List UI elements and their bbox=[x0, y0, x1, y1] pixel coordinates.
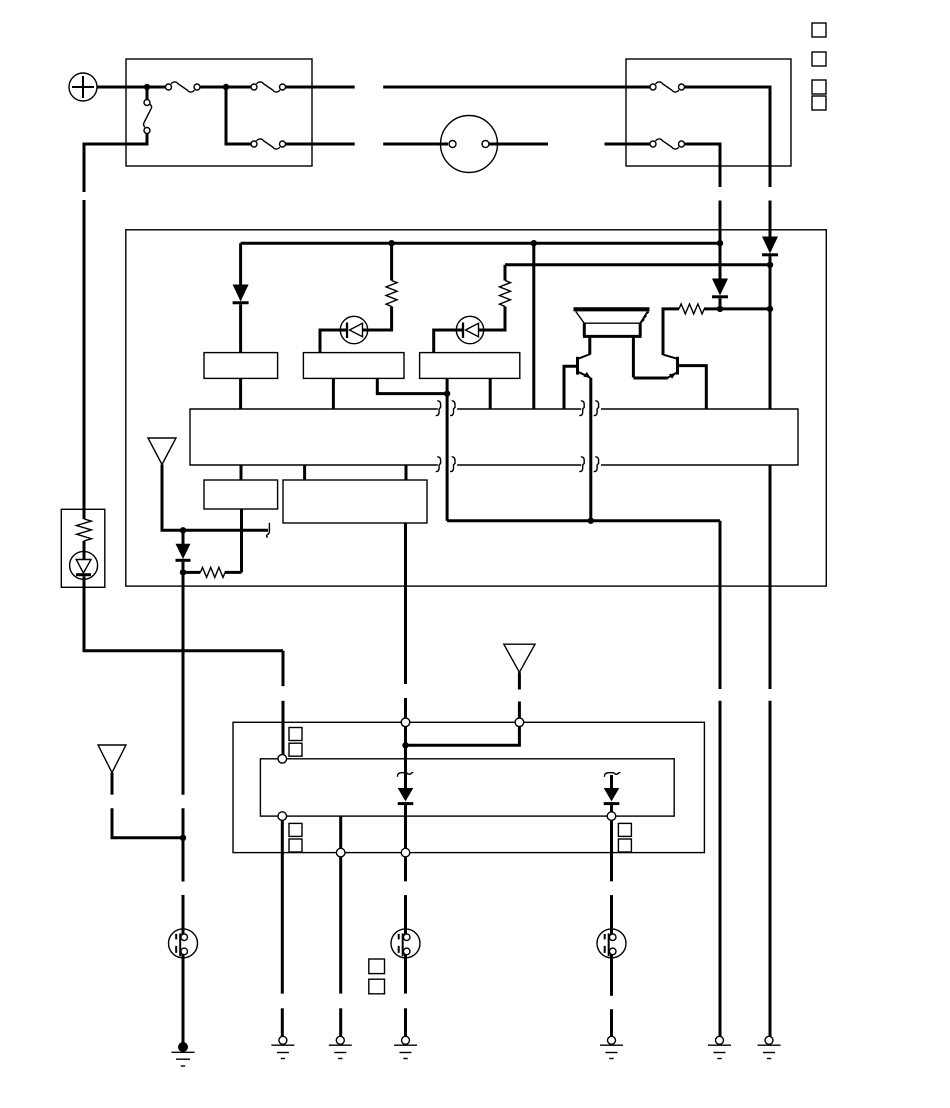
node antenna junction bbox=[180, 527, 186, 533]
wire feed inside receiver bbox=[404, 727, 407, 746]
connector square 3 bbox=[812, 80, 826, 94]
diode D5 bbox=[397, 745, 413, 848]
node D3 out bbox=[717, 306, 723, 312]
transistor Q2 bbox=[633, 355, 706, 409]
terminal antenna bbox=[515, 718, 524, 727]
connector square r6 bbox=[618, 839, 631, 852]
wire fuse D to ignition switch bbox=[286, 143, 449, 146]
wire right long 1 bbox=[719, 521, 722, 689]
pin box B to IC bbox=[332, 378, 335, 409]
LED L1 bbox=[320, 316, 368, 352]
ignition switch bbox=[441, 116, 498, 173]
wire through IC node path bbox=[447, 519, 720, 522]
terminal out 2 bbox=[401, 848, 410, 857]
node antenna 2 junction bbox=[180, 835, 186, 841]
pin box C to IC bbox=[489, 378, 492, 409]
connector A bbox=[169, 929, 198, 958]
ground G4 bbox=[394, 1036, 417, 1058]
wire out1 down bbox=[339, 816, 342, 848]
wire fuse A to fuse B bbox=[200, 86, 251, 89]
resistor R2 bbox=[479, 265, 511, 330]
box B bbox=[303, 353, 404, 379]
speaker bbox=[574, 309, 650, 377]
wire fuse C down right bbox=[685, 87, 771, 187]
wire end curl bbox=[267, 523, 270, 538]
box C bbox=[420, 353, 520, 379]
pin IC to box D bbox=[240, 465, 243, 480]
node bus right bbox=[717, 240, 723, 246]
color square b1 bbox=[369, 959, 385, 974]
antenna triangle 3 bbox=[504, 644, 535, 718]
box D bbox=[204, 480, 278, 509]
wire connector A to ground bbox=[182, 958, 185, 1044]
fuse B bbox=[251, 82, 286, 92]
battery bbox=[69, 73, 97, 101]
pin IC right down bbox=[769, 465, 772, 689]
wire jog down bbox=[282, 651, 285, 686]
terminal out 1 bbox=[336, 848, 345, 857]
fusible link vertical bbox=[84, 90, 152, 192]
pin IC to box E right bbox=[405, 465, 408, 480]
wire fuse B to fuse box 2 bbox=[286, 86, 651, 89]
resistor R4 bbox=[183, 567, 242, 577]
wire receiver left down bbox=[281, 820, 284, 993]
ground G1 bbox=[172, 1042, 195, 1066]
node D4 out bbox=[180, 569, 186, 575]
diode D6 bbox=[604, 773, 620, 812]
terminal receiver left bottom bbox=[278, 812, 287, 821]
wire box D down bbox=[240, 509, 243, 572]
wire fuse E down bbox=[685, 144, 721, 187]
security LED unit bbox=[61, 509, 283, 650]
connector square r2 bbox=[289, 743, 302, 756]
fuse D bbox=[251, 139, 286, 149]
fuse E bbox=[650, 139, 685, 149]
wire bus to IC bbox=[532, 243, 535, 409]
receiver unit box bbox=[233, 722, 704, 852]
wire box B to node bbox=[377, 378, 447, 393]
control unit box bbox=[126, 230, 827, 586]
node emitter junction bbox=[588, 518, 594, 524]
box E bbox=[283, 480, 427, 523]
connector square 2 bbox=[812, 52, 826, 66]
pin IC to box E left bbox=[303, 465, 306, 480]
connector square r5 bbox=[618, 823, 631, 836]
wire right long 2 bbox=[769, 701, 772, 1037]
pin box A to IC bbox=[239, 378, 242, 409]
bus wire second bbox=[505, 263, 770, 266]
ground G3 bbox=[329, 1036, 352, 1058]
bus wire top bbox=[241, 242, 720, 245]
transistor Q1 bbox=[564, 354, 591, 409]
ground G7 bbox=[758, 1036, 781, 1058]
wire main down left bbox=[182, 572, 185, 794]
wire to fuse E bbox=[605, 143, 651, 146]
receiver inner unit bbox=[260, 759, 674, 816]
ground G6 bbox=[708, 1036, 731, 1058]
diode D4 bbox=[176, 530, 191, 572]
node bus R1 bbox=[388, 240, 394, 246]
wire D6 down bbox=[610, 820, 613, 881]
fuse box 2 bbox=[626, 59, 791, 166]
node battery feed bbox=[144, 84, 150, 90]
connector square r4 bbox=[289, 839, 302, 852]
ground G5 bbox=[600, 1036, 623, 1058]
diode D3 bbox=[712, 243, 728, 309]
fuse A bbox=[166, 82, 201, 92]
terminal receiver feed bbox=[401, 718, 410, 727]
wire out2 down bbox=[404, 857, 407, 881]
wire ignition switch right bbox=[489, 143, 548, 146]
fuse C bbox=[650, 82, 685, 92]
node receiver feed bbox=[402, 742, 408, 748]
wire box E down bbox=[404, 523, 407, 684]
connector square 1 bbox=[812, 23, 826, 37]
wire battery branch lower bbox=[83, 200, 86, 519]
resistor R1 bbox=[363, 243, 398, 330]
wire ignition branch bbox=[226, 87, 251, 144]
connector square r3 bbox=[289, 823, 302, 836]
wire battery to fuse box bbox=[97, 86, 166, 89]
antenna triangle 2 bbox=[98, 745, 183, 838]
node bus2 right bbox=[767, 262, 773, 268]
connector square r1 bbox=[289, 728, 302, 741]
resistor R3 bbox=[663, 304, 770, 355]
wire Q1 emitter through IC bbox=[589, 378, 592, 521]
IC break marks bbox=[436, 401, 599, 472]
diode D2 bbox=[233, 243, 249, 352]
LED L2 bbox=[434, 316, 484, 352]
connector C bbox=[597, 929, 626, 958]
node bus mid bbox=[531, 240, 537, 246]
ground G2 bbox=[271, 1036, 294, 1058]
box A bbox=[204, 353, 278, 379]
IC block bbox=[190, 409, 798, 465]
diode D1 bbox=[762, 237, 778, 410]
fuse box 1 bbox=[126, 59, 312, 166]
wire box C through IC bbox=[446, 378, 449, 520]
node R3 right bbox=[767, 306, 773, 312]
color square b2 bbox=[369, 979, 385, 994]
node box C feed bbox=[444, 390, 450, 396]
connector B bbox=[391, 929, 420, 958]
node ignition feed bbox=[223, 84, 229, 90]
antenna triangle 1 bbox=[148, 438, 268, 530]
terminal receiver left top bbox=[278, 755, 287, 764]
connector square 4 bbox=[812, 96, 826, 110]
terminal D6 bbox=[607, 812, 616, 821]
